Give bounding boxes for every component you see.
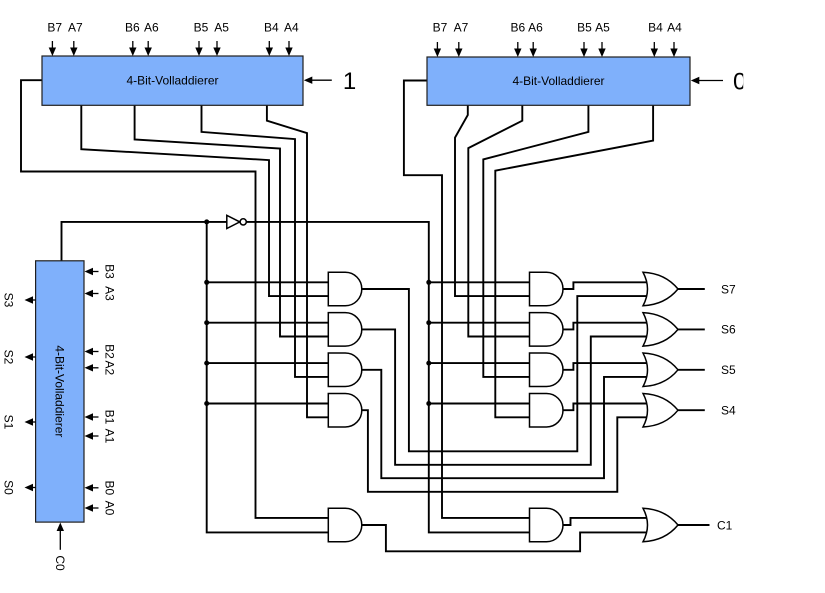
svg-text:B6: B6 [510,21,525,35]
svg-text:4-Bit-Volladdierer: 4-Bit-Volladdierer [126,74,218,88]
svg-text:A5: A5 [595,21,610,35]
svg-text:B5: B5 [577,21,592,35]
svg-text:B5: B5 [194,21,209,35]
svg-text:S0: S0 [2,480,16,495]
svg-text:A7: A7 [454,21,469,35]
svg-text:A2: A2 [103,360,117,375]
svg-text:B7: B7 [433,21,448,35]
svg-text:S3: S3 [2,293,16,308]
svg-text:S5: S5 [721,363,736,377]
svg-text:S7: S7 [721,282,736,296]
svg-text:4-Bit-Volladdierer: 4-Bit-Volladdierer [52,345,66,437]
svg-text:4-Bit-Volladdierer: 4-Bit-Volladdierer [512,74,604,88]
svg-text:S6: S6 [721,323,736,337]
svg-text:S4: S4 [721,404,736,418]
svg-text:1: 1 [343,68,356,95]
svg-text:A4: A4 [667,21,682,35]
svg-text:C1: C1 [717,518,733,532]
svg-text:A1: A1 [103,429,117,444]
svg-text:B6: B6 [125,21,140,35]
svg-text:A0: A0 [103,501,117,516]
svg-text:B1: B1 [103,410,117,425]
svg-text:S1: S1 [2,415,16,430]
svg-text:A4: A4 [284,21,299,35]
svg-text:A5: A5 [214,21,229,35]
svg-text:C0: C0 [53,555,67,571]
svg-text:B2: B2 [103,344,117,359]
svg-text:B4: B4 [264,21,279,35]
svg-text:A6: A6 [144,21,159,35]
svg-text:A6: A6 [528,21,543,35]
svg-text:S2: S2 [2,350,16,365]
svg-text:A7: A7 [68,21,83,35]
svg-text:B7: B7 [47,21,62,35]
svg-text:B3: B3 [103,264,117,279]
svg-text:B0: B0 [103,480,117,495]
svg-text:0: 0 [733,68,746,95]
svg-text:A3: A3 [103,286,117,301]
svg-text:B4: B4 [648,21,663,35]
